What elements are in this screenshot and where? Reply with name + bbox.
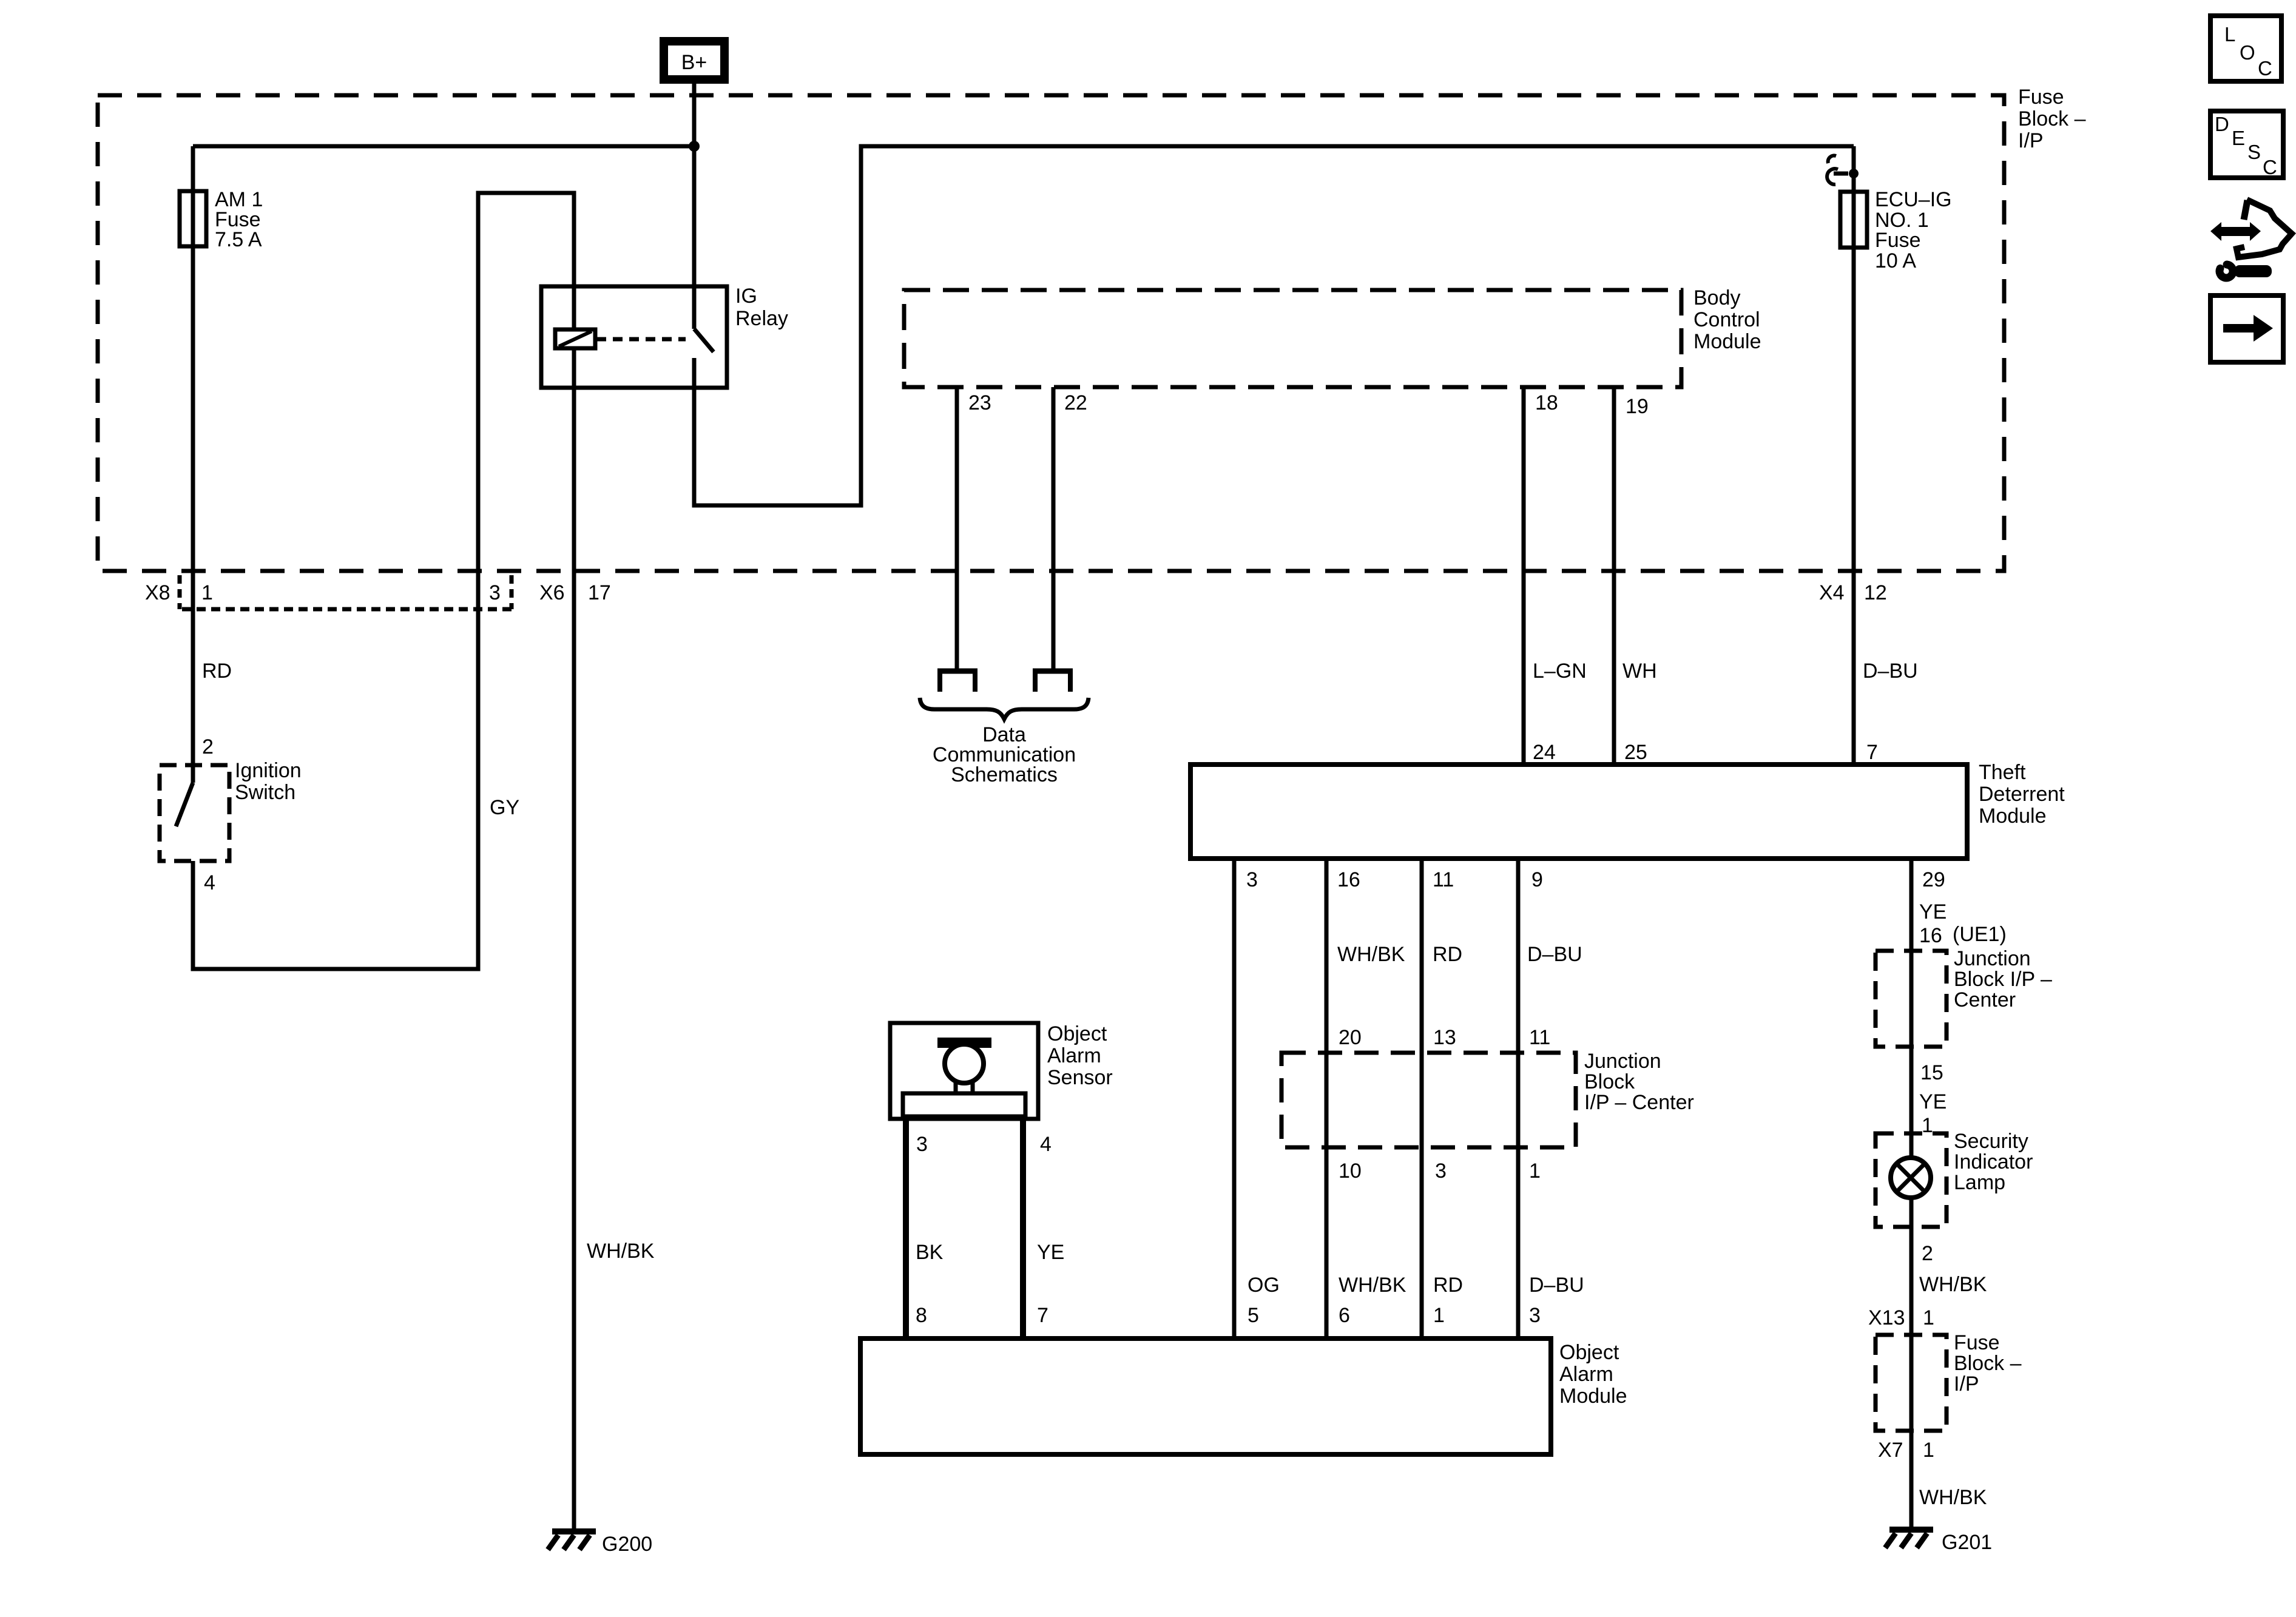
svg-text:Theft: Theft bbox=[1979, 761, 2026, 784]
svg-text:Fuse: Fuse bbox=[1954, 1331, 2000, 1354]
svg-text:6: 6 bbox=[1339, 1304, 1350, 1327]
svg-text:Body: Body bbox=[1693, 286, 1741, 309]
svg-text:Object: Object bbox=[1559, 1341, 1619, 1364]
svg-text:Fuse: Fuse bbox=[2018, 86, 2064, 109]
svg-text:X8: X8 bbox=[145, 581, 171, 604]
svg-text:YE: YE bbox=[1919, 1090, 1947, 1113]
svg-text:Block –: Block – bbox=[1954, 1352, 2022, 1375]
svg-text:Block: Block bbox=[1584, 1070, 1635, 1093]
svg-text:Junction: Junction bbox=[1954, 947, 2031, 970]
svg-text:17: 17 bbox=[588, 581, 611, 604]
svg-text:3: 3 bbox=[489, 581, 501, 604]
svg-text:YE: YE bbox=[1919, 900, 1947, 923]
svg-text:RD: RD bbox=[1433, 1274, 1463, 1297]
svg-text:WH/BK: WH/BK bbox=[1919, 1273, 1987, 1296]
svg-text:Module: Module bbox=[1693, 330, 1761, 353]
svg-text:D–BU: D–BU bbox=[1527, 943, 1582, 966]
svg-text:YE: YE bbox=[1037, 1241, 1064, 1264]
svg-text:3: 3 bbox=[916, 1133, 928, 1156]
svg-text:11: 11 bbox=[1529, 1026, 1550, 1049]
svg-text:25: 25 bbox=[1624, 741, 1647, 764]
svg-text:Object: Object bbox=[1047, 1022, 1107, 1045]
svg-text:B+: B+ bbox=[681, 51, 707, 74]
svg-text:3: 3 bbox=[1529, 1304, 1541, 1327]
svg-text:29: 29 bbox=[1922, 868, 1945, 891]
svg-text:I/P: I/P bbox=[2018, 129, 2044, 152]
svg-text:ECU–IG: ECU–IG bbox=[1875, 188, 1952, 211]
svg-text:20: 20 bbox=[1339, 1026, 1362, 1049]
svg-text:Control: Control bbox=[1693, 308, 1760, 331]
svg-text:WH: WH bbox=[1622, 660, 1657, 683]
svg-text:X4: X4 bbox=[1819, 581, 1845, 604]
svg-text:Junction: Junction bbox=[1584, 1050, 1661, 1073]
svg-text:L: L bbox=[2224, 23, 2235, 46]
svg-text:4: 4 bbox=[1040, 1133, 1052, 1156]
svg-text:OG: OG bbox=[1248, 1274, 1280, 1297]
svg-text:RD: RD bbox=[202, 660, 232, 683]
svg-text:3: 3 bbox=[1435, 1160, 1447, 1183]
svg-text:GY: GY bbox=[490, 796, 519, 819]
svg-text:11: 11 bbox=[1433, 868, 1454, 891]
svg-text:Ignition: Ignition bbox=[235, 759, 302, 782]
svg-text:Lamp: Lamp bbox=[1954, 1171, 2005, 1194]
svg-text:G201: G201 bbox=[1942, 1531, 1992, 1554]
svg-text:WH/BK: WH/BK bbox=[587, 1240, 655, 1263]
svg-text:1: 1 bbox=[1433, 1304, 1445, 1327]
svg-text:1: 1 bbox=[1923, 1306, 1934, 1329]
svg-text:L–GN: L–GN bbox=[1533, 660, 1587, 683]
svg-text:D–BU: D–BU bbox=[1529, 1274, 1584, 1297]
svg-text:Security: Security bbox=[1954, 1130, 2028, 1153]
svg-text:S: S bbox=[2247, 141, 2261, 163]
svg-text:BK: BK bbox=[916, 1241, 944, 1264]
svg-text:5: 5 bbox=[1248, 1304, 1259, 1327]
svg-text:D–BU: D–BU bbox=[1863, 660, 1918, 683]
svg-text:WH/BK: WH/BK bbox=[1339, 1274, 1406, 1297]
svg-text:7: 7 bbox=[1866, 741, 1878, 764]
svg-text:I/P: I/P bbox=[1954, 1372, 1979, 1396]
svg-text:Switch: Switch bbox=[235, 781, 295, 804]
svg-text:Fuse: Fuse bbox=[1875, 229, 1921, 252]
svg-text:E: E bbox=[2232, 127, 2245, 149]
svg-text:Center: Center bbox=[1954, 988, 2016, 1011]
svg-text:2: 2 bbox=[202, 735, 214, 758]
svg-text:13: 13 bbox=[1433, 1026, 1456, 1049]
svg-text:7.5 A: 7.5 A bbox=[215, 228, 262, 251]
svg-text:1: 1 bbox=[1529, 1160, 1541, 1183]
svg-text:1: 1 bbox=[1922, 1114, 1933, 1137]
svg-text:Alarm: Alarm bbox=[1559, 1363, 1613, 1386]
svg-text:X7: X7 bbox=[1878, 1439, 1903, 1462]
svg-text:12: 12 bbox=[1864, 581, 1887, 604]
svg-text:1: 1 bbox=[1923, 1439, 1934, 1462]
svg-text:2: 2 bbox=[1922, 1242, 1933, 1265]
svg-text:18: 18 bbox=[1535, 391, 1558, 414]
svg-text:9: 9 bbox=[1531, 868, 1543, 891]
svg-text:C: C bbox=[2263, 156, 2277, 178]
svg-text:D: D bbox=[2215, 113, 2229, 135]
svg-text:3: 3 bbox=[1246, 868, 1258, 891]
svg-text:G200: G200 bbox=[602, 1533, 652, 1556]
svg-text:WH/BK: WH/BK bbox=[1919, 1486, 1987, 1509]
svg-text:Deterrent: Deterrent bbox=[1979, 783, 2065, 806]
svg-text:Block –: Block – bbox=[2018, 107, 2086, 130]
svg-text:Sensor: Sensor bbox=[1047, 1066, 1113, 1089]
svg-text:1: 1 bbox=[201, 581, 213, 604]
svg-text:10: 10 bbox=[1339, 1160, 1362, 1183]
svg-text:X6: X6 bbox=[539, 581, 565, 604]
svg-text:Relay: Relay bbox=[735, 307, 788, 330]
svg-text:RD: RD bbox=[1433, 943, 1462, 966]
svg-text:16: 16 bbox=[1337, 868, 1360, 891]
svg-text:15: 15 bbox=[1920, 1061, 1943, 1084]
svg-text:22: 22 bbox=[1064, 391, 1087, 414]
svg-text:23: 23 bbox=[968, 391, 991, 414]
svg-text:4: 4 bbox=[204, 871, 215, 894]
svg-text:IG: IG bbox=[735, 285, 757, 308]
svg-text:(UE1): (UE1) bbox=[1953, 923, 2007, 946]
svg-text:I/P – Center: I/P – Center bbox=[1584, 1091, 1694, 1114]
svg-text:16: 16 bbox=[1919, 924, 1942, 947]
svg-text:24: 24 bbox=[1533, 741, 1556, 764]
svg-text:Module: Module bbox=[1979, 805, 2047, 828]
svg-text:8: 8 bbox=[916, 1304, 927, 1327]
svg-text:Block I/P –: Block I/P – bbox=[1954, 968, 2052, 991]
svg-text:Module: Module bbox=[1559, 1385, 1627, 1408]
svg-text:C: C bbox=[2258, 57, 2272, 79]
svg-text:7: 7 bbox=[1037, 1304, 1048, 1327]
svg-text:WH/BK: WH/BK bbox=[1337, 943, 1405, 966]
svg-text:Alarm: Alarm bbox=[1047, 1044, 1101, 1067]
svg-text:X13: X13 bbox=[1868, 1306, 1905, 1329]
svg-text:O: O bbox=[2240, 41, 2255, 64]
svg-text:10 A: 10 A bbox=[1875, 249, 1916, 272]
svg-text:Schematics: Schematics bbox=[951, 763, 1058, 786]
svg-text:Indicator: Indicator bbox=[1954, 1150, 2033, 1173]
svg-text:19: 19 bbox=[1626, 395, 1649, 418]
